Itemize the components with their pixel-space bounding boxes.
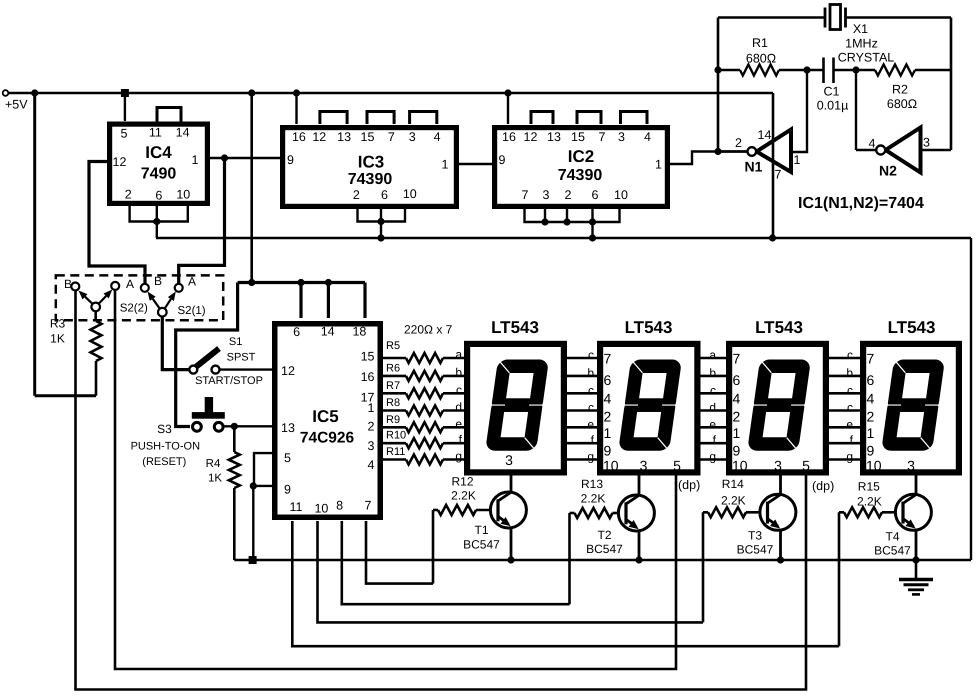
svg-text:10: 10	[403, 187, 417, 201]
svg-text:4: 4	[733, 391, 741, 407]
wire R8 to display1 segment d	[443, 409, 464, 412]
svg-text:9: 9	[284, 483, 291, 497]
svg-text:680Ω: 680Ω	[746, 52, 776, 66]
svg-text:c: c	[847, 383, 853, 397]
svg-text:14: 14	[321, 325, 335, 339]
resistor R15 2.2K	[844, 507, 882, 517]
wire segment e display2-display3	[701, 426, 727, 429]
svg-text:5: 5	[284, 451, 291, 465]
svg-text:7: 7	[365, 499, 372, 513]
wire IC5 segment output row R6	[383, 375, 406, 378]
wire T1 emitter to rail	[510, 528, 513, 561]
wire S3 to IC5 pin 13	[222, 425, 272, 427]
R1 labels	[746, 36, 776, 66]
wire IC4 pins 11-14 top loop	[157, 108, 181, 123]
svg-text:d: d	[455, 400, 462, 414]
node T3 emitter on rail	[777, 556, 784, 563]
R13 labels	[581, 477, 606, 506]
svg-text:b: b	[709, 366, 716, 380]
svg-text:6: 6	[155, 188, 162, 202]
svg-text:10: 10	[866, 458, 882, 474]
svg-text:b: b	[587, 366, 594, 380]
svg-text:12: 12	[113, 155, 127, 169]
wire IC5 pin 7 to T1 route	[366, 521, 433, 584]
svg-text:R12: R12	[451, 475, 473, 489]
switch S2(2) contact A	[111, 282, 119, 290]
svg-text:10: 10	[603, 458, 619, 474]
svg-text:7: 7	[388, 130, 395, 144]
wire emitter rail	[234, 559, 971, 561]
wire segment f display1-display2	[567, 442, 597, 445]
svg-text:74390: 74390	[348, 171, 393, 188]
svg-text:e: e	[846, 417, 853, 431]
svg-text:(dp): (dp)	[812, 479, 834, 493]
wire IC5 segment output row R7	[383, 392, 406, 395]
node rail to IC3 pin 16	[293, 89, 300, 96]
svg-text:6: 6	[867, 372, 875, 388]
svg-text:6: 6	[733, 372, 741, 388]
svg-text:9: 9	[867, 443, 875, 459]
svg-text:13: 13	[337, 130, 351, 144]
svg-text:+5V: +5V	[5, 98, 28, 112]
wire IC4 pin 1 to IC3 pin 9	[209, 157, 280, 159]
display #3 digit 8	[747, 360, 811, 451]
wire display3 pin3 to T3 collector	[779, 475, 782, 495]
svg-text:7: 7	[522, 188, 529, 202]
switch S3 left terminal	[193, 422, 202, 431]
wire IC5 top feed row	[176, 283, 238, 427]
wire rail down to IC5 feed row	[250, 93, 253, 283]
svg-text:0.01µ: 0.01µ	[817, 99, 849, 113]
wire R14 leads	[703, 511, 768, 514]
N1 labels	[735, 128, 801, 182]
crystal labels	[838, 22, 895, 65]
display LT543 #3 body	[729, 344, 826, 473]
svg-text:12: 12	[524, 130, 538, 144]
node feed IC5 pin6	[297, 279, 304, 286]
wire segment d display3-display4	[829, 409, 860, 412]
svg-text:1MHz: 1MHz	[845, 37, 878, 51]
resistor R3 1K	[91, 309, 102, 396]
svg-text:R3: R3	[50, 317, 66, 331]
T3 labels	[737, 529, 774, 557]
wire right-edge vertical bus to emitter rail	[970, 238, 972, 560]
node C1-R2 junction	[852, 66, 859, 73]
svg-text:1: 1	[604, 425, 612, 441]
svg-text:c: c	[710, 383, 716, 397]
svg-text:R9: R9	[386, 414, 400, 426]
svg-text:LT543: LT543	[888, 318, 936, 337]
wire segment g display3-display4	[829, 458, 860, 461]
svg-text:R15: R15	[858, 480, 880, 494]
wire IC2 pins 12-13 top loop	[531, 112, 553, 125]
svg-text:4: 4	[434, 130, 441, 144]
transistor T3 BC547	[760, 494, 796, 530]
wire R15 to IC5 digit drive	[838, 512, 841, 646]
S2 dashed enclosure	[56, 275, 223, 320]
svg-text:6: 6	[592, 188, 599, 202]
wire IC3 pin 1 to IC2 pin 9	[459, 163, 492, 165]
resistor R7 220ohm	[406, 388, 443, 398]
IC5 labels	[281, 325, 375, 516]
svg-text:c: c	[588, 401, 594, 415]
svg-text:X1: X1	[853, 22, 868, 36]
switch S1 right terminal	[212, 366, 220, 374]
svg-text:2: 2	[735, 136, 742, 150]
svg-text:N2: N2	[879, 163, 897, 179]
wire IC5 segment output row R11	[383, 458, 406, 461]
svg-text:S3: S3	[157, 422, 172, 436]
wire crystal top loop right	[846, 16, 952, 19]
svg-text:15: 15	[361, 350, 375, 364]
svg-text:7: 7	[775, 168, 782, 182]
node rail to R3 branch	[31, 89, 38, 96]
svg-text:a: a	[709, 348, 716, 362]
svg-text:T4: T4	[885, 530, 899, 544]
svg-text:74C926: 74C926	[300, 430, 355, 447]
wire IC5 pin 10 to T3 route	[318, 521, 704, 622]
svg-text:7: 7	[599, 130, 606, 144]
svg-text:B: B	[64, 277, 72, 291]
node S3-R4 junction	[231, 423, 238, 430]
node N1 output	[714, 148, 721, 155]
wire N2 output vertical	[855, 70, 857, 150]
wire R1 left lead	[718, 69, 740, 71]
svg-text:3: 3	[505, 452, 513, 468]
switch S2(2) contact B	[71, 283, 79, 291]
svg-text:R13: R13	[581, 477, 603, 491]
wire segment d display1-display2	[567, 409, 597, 412]
switch S3 push button plunger	[192, 397, 225, 419]
resistor R4 1K	[229, 426, 240, 560]
R3 labels	[50, 317, 66, 346]
wire segment b display2-display3	[701, 375, 727, 378]
svg-text:b: b	[846, 366, 853, 380]
wire R13 leads	[570, 512, 627, 515]
node IC2 pin2 loop junction	[563, 218, 570, 225]
crystal X1	[825, 5, 846, 30]
svg-text:10: 10	[176, 188, 190, 202]
C1 labels	[817, 85, 849, 113]
wire IC5 pin 8 to T2 route	[342, 521, 570, 604]
N1 output bubble	[748, 147, 757, 156]
wire R3 branch vertical	[33, 93, 36, 396]
svg-text:1: 1	[442, 158, 449, 172]
resistor R8 220ohm	[406, 406, 443, 416]
node feed IC5 pin14	[325, 279, 332, 286]
svg-text:6: 6	[381, 188, 388, 202]
svg-text:12: 12	[281, 364, 295, 378]
svg-text:1: 1	[867, 425, 875, 441]
svg-text:R11: R11	[386, 446, 405, 458]
svg-text:9: 9	[733, 443, 741, 459]
svg-text:16: 16	[292, 130, 306, 144]
ground symbol	[899, 560, 933, 594]
svg-text:2: 2	[353, 188, 360, 202]
wire IC2 pin 1 to inverter N1	[670, 152, 747, 165]
wire segment c display1-display2	[567, 392, 597, 395]
IC4 labels	[113, 126, 199, 203]
svg-text:e: e	[709, 417, 716, 431]
node bus IC3	[377, 234, 384, 241]
node T2 emitter on rail	[635, 556, 642, 563]
wire segment a display3-display4	[829, 357, 860, 360]
display #4 left pin numbers	[866, 351, 882, 474]
svg-text:220Ω x 7: 220Ω x 7	[404, 323, 453, 337]
svg-text:2: 2	[125, 188, 132, 202]
svg-text:R14: R14	[722, 477, 744, 491]
svg-text:BC547: BC547	[463, 538, 500, 552]
R15 labels	[857, 480, 882, 509]
wire IC5 pin 11 to T4 route	[292, 521, 839, 646]
node T4 emitter on rail	[912, 556, 919, 563]
svg-text:LT543: LT543	[755, 318, 803, 337]
svg-text:START/STOP: START/STOP	[195, 375, 263, 387]
svg-text:R7: R7	[386, 380, 400, 392]
wire IC3 pins 12-13 top loop	[320, 112, 347, 125]
wire IC5 pin 14	[327, 283, 330, 319]
wire IC3 pins 3-4 top loop	[410, 112, 437, 125]
wire S2(2) contact A down to display2 dp	[115, 290, 676, 669]
node IC4 pin6 loop junction	[153, 218, 160, 225]
wire segment e display1-display2	[567, 426, 597, 429]
svg-text:2: 2	[604, 409, 612, 425]
svg-text:c: c	[847, 348, 853, 362]
wire IC4 pin 5	[124, 93, 126, 121]
svg-text:4: 4	[867, 391, 875, 407]
wire IC2 bottom pins 7-10 loop	[525, 206, 620, 222]
svg-text:1: 1	[192, 153, 199, 167]
wire R12 to IC5 digit drive	[432, 510, 435, 584]
node feed from rail	[248, 279, 255, 286]
IC2 74390 body	[495, 128, 668, 207]
svg-text:SPST: SPST	[227, 352, 256, 364]
wire segment a display2-display3	[701, 357, 727, 360]
wire IC2 pins 15-7 top loop	[577, 112, 601, 125]
wire IC2 loop to ground bus	[591, 222, 593, 238]
wire IC4 pin1 down to S2(1) A contact	[179, 158, 225, 284]
wire IC5 segment output row R8	[383, 409, 406, 412]
switch S1 left terminal	[189, 366, 197, 374]
+5V terminal	[3, 90, 29, 111]
resistor R10 220ohm	[406, 438, 443, 448]
svg-text:b: b	[455, 365, 462, 379]
svg-text:10: 10	[614, 188, 628, 202]
svg-text:15: 15	[361, 130, 375, 144]
wire IC5 segment output row R5	[383, 357, 406, 360]
node rail to IC4 pin 5	[121, 89, 129, 97]
wire IC4 bottom pins 2-6-10 loop	[130, 205, 188, 222]
wire N1 output to node	[718, 150, 747, 152]
svg-text:c: c	[588, 383, 594, 397]
svg-text:4: 4	[604, 391, 612, 407]
svg-text:A: A	[126, 277, 134, 291]
svg-text:9: 9	[604, 443, 612, 459]
wire R14 to IC5 digit drive	[702, 512, 705, 622]
svg-text:S2(2): S2(2)	[120, 303, 148, 315]
svg-text:S1: S1	[229, 336, 242, 348]
switch S2(1) wiper arrows	[148, 292, 176, 313]
svg-text:S2(1): S2(1)	[178, 305, 206, 317]
op-amp N2 inverter triangle	[886, 128, 921, 173]
wire N2 input lead	[921, 149, 952, 151]
T4 labels	[874, 530, 911, 558]
wire IC3 pins 15-7 top loop	[367, 112, 394, 125]
resistor R13 2.2K	[575, 508, 613, 518]
svg-text:(dp): (dp)	[678, 478, 700, 492]
wire IC4 pin 12 to S2(1) B contact	[89, 162, 145, 285]
wire R11 to display1 segment g	[443, 458, 464, 461]
wire T3 emitter to rail	[779, 530, 782, 560]
display #4 digit 8	[881, 360, 945, 451]
wire R13 to IC5 digit drive	[568, 513, 571, 604]
svg-text:5: 5	[121, 126, 128, 140]
wire segment b display3-display4	[829, 375, 860, 378]
wire IC3 pin 6 stub	[380, 206, 382, 222]
wire segment g display1-display2	[567, 458, 597, 461]
svg-text:11: 11	[149, 126, 162, 140]
display #1 digit 8	[485, 360, 549, 451]
svg-text:3: 3	[907, 458, 915, 474]
wire display1 pin3 to T1 collector	[510, 475, 513, 493]
svg-text:680Ω: 680Ω	[887, 97, 917, 111]
svg-text:13: 13	[281, 421, 295, 435]
switch S2(2) wiper arrows	[79, 290, 113, 307]
svg-text:2.2K: 2.2K	[857, 495, 882, 509]
wire segment d display2-display3	[701, 409, 727, 412]
svg-text:3: 3	[774, 458, 782, 474]
svg-text:9: 9	[499, 153, 506, 167]
svg-text:IC4: IC4	[145, 143, 172, 162]
svg-text:8: 8	[336, 499, 343, 513]
wire crystal top loop	[718, 16, 825, 19]
svg-text:R2: R2	[892, 83, 908, 97]
wire +5V rail	[8, 92, 773, 94]
svg-text:R8: R8	[386, 397, 400, 409]
wire R12 leads	[433, 509, 498, 512]
T1 labels	[463, 523, 500, 552]
display #3 left pin numbers	[732, 351, 748, 474]
svg-text:IC3: IC3	[358, 153, 384, 172]
wire IC2 pin 2 stub	[566, 206, 568, 222]
svg-text:5: 5	[802, 458, 810, 474]
display LT543 #1 body	[467, 344, 564, 473]
svg-text:IC2: IC2	[568, 147, 594, 166]
svg-text:IC1(N1,N2)=7404: IC1(N1,N2)=7404	[798, 195, 924, 212]
IC3 74390 body	[283, 128, 457, 207]
node IC3 pin6 loop junction	[377, 218, 384, 225]
switch S3 right terminal	[214, 422, 223, 431]
wire pin9 down to emitter rail	[252, 486, 254, 560]
svg-text:3: 3	[923, 136, 930, 150]
svg-text:g: g	[587, 450, 594, 464]
node R1 left	[714, 66, 721, 73]
wire IC3 bottom pins 2-10 loop	[358, 206, 406, 222]
svg-text:A: A	[188, 275, 196, 289]
svg-text:1: 1	[794, 153, 801, 167]
S2(2) labels	[64, 277, 148, 315]
wire S2(1) pole to S1	[162, 317, 193, 370]
svg-text:5: 5	[673, 458, 681, 474]
N2 labels	[869, 136, 931, 179]
IC4 7490 body	[110, 124, 208, 203]
wire C1 junction down to N1 input	[791, 70, 807, 152]
wire S2(2) contact B down to display3 dp	[76, 291, 807, 690]
node T1 emitter on rail	[507, 556, 514, 563]
wire IC5 pin 6	[299, 283, 302, 319]
switch S2(2) pole	[91, 303, 100, 312]
capacitor C1 0.01u	[824, 58, 834, 84]
svg-text:10: 10	[732, 458, 748, 474]
S3 labels	[131, 422, 201, 468]
wire segment b display1-display2	[567, 375, 597, 378]
wire segment c display3-display4	[829, 392, 860, 395]
resistor R2 680ohm	[875, 65, 915, 76]
svg-text:2: 2	[867, 409, 875, 425]
wire R15 leads	[839, 511, 903, 514]
svg-text:e: e	[455, 417, 462, 431]
svg-text:7: 7	[867, 351, 875, 367]
svg-text:C1: C1	[824, 85, 840, 99]
svg-text:74390: 74390	[558, 167, 603, 184]
svg-text:T3: T3	[748, 529, 762, 543]
transistor T1 BC547	[490, 492, 526, 528]
svg-text:R6: R6	[386, 362, 400, 374]
svg-text:14: 14	[176, 126, 190, 140]
svg-text:3: 3	[543, 188, 550, 202]
svg-text:10: 10	[314, 502, 328, 516]
wire IC5 pin 18	[363, 283, 366, 319]
resistor R1 680ohm	[740, 65, 779, 76]
node rail to IC5 feed	[248, 89, 255, 96]
S1 labels	[195, 336, 263, 387]
switch S1 lever	[195, 349, 220, 369]
wire feed row horizontal	[238, 281, 365, 284]
wire T2 emitter to rail	[638, 531, 641, 561]
svg-text:T2: T2	[597, 528, 611, 542]
node IC4 pin1 branch	[221, 154, 228, 161]
svg-text:T1: T1	[474, 523, 488, 537]
node rail R4/pin9 junction	[249, 556, 257, 564]
R12 labels	[451, 475, 476, 503]
svg-text:9: 9	[287, 153, 294, 167]
R2 labels	[887, 83, 917, 112]
display #2 left pin numbers	[603, 351, 619, 474]
wire N2 output lead	[856, 149, 876, 151]
svg-text:CRYSTAL: CRYSTAL	[838, 51, 895, 65]
switch S2(1) contact A	[175, 284, 183, 292]
svg-text:e: e	[587, 417, 594, 431]
wire R1 to C1	[779, 69, 824, 71]
wire segment e display3-display4	[829, 426, 860, 429]
resistor R6 220ohm	[406, 371, 443, 381]
svg-text:BC547: BC547	[586, 542, 623, 556]
node bus IC1 pin7	[769, 234, 776, 241]
wire left oscillator vertical	[717, 18, 720, 152]
wire IC5 segment output row R10	[383, 442, 406, 445]
wire T4 emitter to rail	[915, 530, 918, 560]
svg-text:g: g	[709, 450, 716, 464]
wire ground bus horizontal	[156, 237, 971, 239]
wire R6 to display1 segment b	[443, 375, 464, 378]
svg-text:g: g	[455, 449, 462, 463]
svg-text:1: 1	[368, 401, 375, 415]
svg-text:11: 11	[290, 500, 303, 514]
wire IC2 pin 6 stub	[591, 206, 593, 222]
wire segment g display2-display3	[701, 458, 727, 461]
node IC2 pin3 loop junction	[541, 218, 548, 225]
switch S2(1) pole	[158, 308, 167, 317]
